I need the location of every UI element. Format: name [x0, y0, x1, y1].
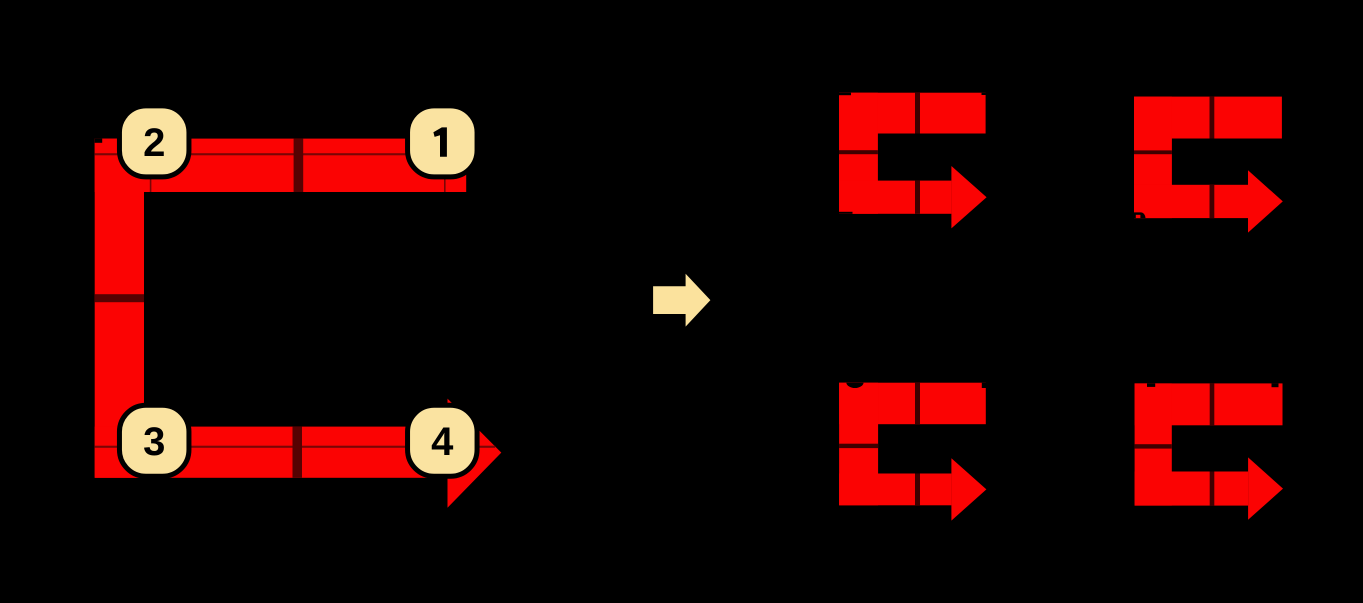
mini2 top bar divider [1210, 97, 1215, 139]
mini3 digit-2 notch [846, 383, 863, 388]
mini1 top bar divider [915, 93, 920, 134]
mini4 top bar [1135, 383, 1283, 425]
mini4 left column divider [1135, 444, 1172, 448]
mini1 left column divider [839, 150, 878, 154]
mini4 bottom bar [1135, 472, 1249, 506]
mini2 left column [1134, 97, 1172, 219]
mini arrow 4 (bottom-right) [1135, 383, 1283, 519]
big top bar inner tick right [444, 154, 446, 192]
mini arrow 3 (bottom-left) [839, 383, 986, 521]
mini3 digit-1 notch [982, 383, 986, 388]
mini1 left column [839, 93, 878, 214]
mini3 top bar divider [915, 383, 920, 425]
big path bottom bar [95, 427, 448, 478]
mini3 bottom bar [839, 474, 951, 506]
mini2 arrowhead [1248, 170, 1283, 232]
mini4 arrowhead [1248, 457, 1283, 519]
big top bar inner line [95, 153, 467, 155]
mini4 digit-1 notch [1272, 383, 1279, 387]
big top bar divider [294, 139, 304, 192]
waypoint circle 3 [119, 407, 189, 478]
big top bar inner tick left [150, 154, 152, 192]
mini2 top bar [1134, 97, 1282, 139]
big left bar divider [95, 294, 144, 302]
waypoint circle 1 [408, 107, 478, 178]
middle cream arrow [653, 274, 710, 327]
mini3 top bar [839, 383, 986, 425]
mini3 left column [839, 383, 878, 506]
mini1 bottom bar divider [915, 181, 920, 214]
big top bar left corner step [95, 139, 103, 143]
svg-text:3: 3 [143, 420, 165, 464]
waypoint circle 2 [119, 107, 189, 178]
big path left bar [95, 139, 144, 478]
mini4 bottom bar divider [1210, 472, 1215, 506]
big path arrowhead [448, 399, 502, 508]
mini1 digit-1 notch [982, 93, 986, 95]
mini3 arrowhead [951, 458, 986, 520]
svg-text:2: 2 [143, 121, 165, 165]
mini2 bottom bar [1134, 185, 1248, 218]
mini arrow 2 (top-right) [1134, 97, 1283, 233]
mini3 left column divider [839, 444, 878, 448]
waypoint circle 4 [408, 407, 478, 478]
big path top bar [95, 139, 467, 192]
mini4 left column [1135, 383, 1172, 505]
mini1 digit-3 notch [839, 212, 853, 214]
mini2 digit-3 counter dot [1136, 215, 1141, 218]
mini3 bottom bar divider [915, 474, 920, 506]
mini4 digit-2 notch [1147, 383, 1155, 387]
digit 1 glyph (no-foot style) [433, 127, 447, 156]
mini2 bottom bar divider [1210, 185, 1215, 218]
mini arrow 1 (top-left) [839, 93, 987, 229]
mini1 top bar [839, 93, 986, 134]
svg-text:4: 4 [431, 420, 454, 464]
mini1 digit-2 notch [839, 93, 851, 96]
mini4 top bar divider [1210, 383, 1215, 425]
mini1 bottom bar [839, 181, 951, 214]
big bottom bar divider [293, 427, 303, 478]
mini2 left column divider [1134, 150, 1172, 154]
mini1 arrowhead [951, 166, 986, 228]
mini2 digit-3 notch [1134, 212, 1146, 218]
big bottom bar inner line [95, 446, 496, 448]
